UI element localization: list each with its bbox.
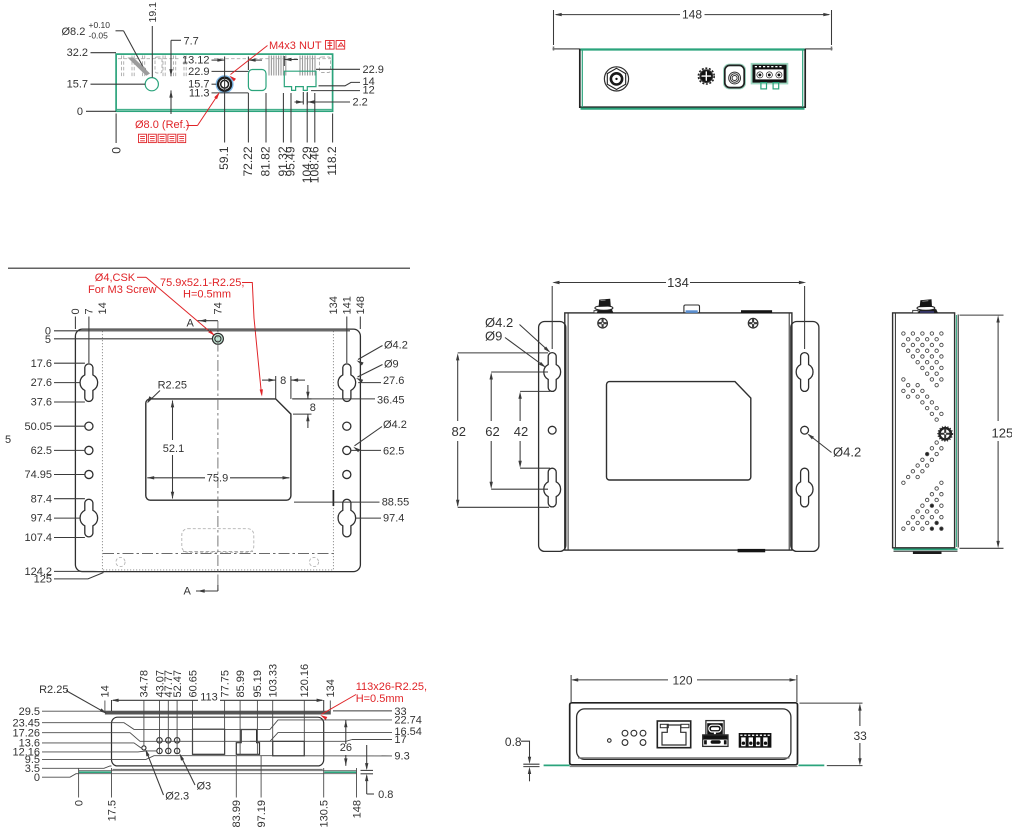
svg-text:33: 33 — [854, 729, 868, 743]
left flange slots and holes — [80, 364, 98, 402]
bottom tab — [913, 552, 942, 554]
M4 nut center — [222, 82, 227, 87]
svg-text:15.7: 15.7 — [67, 78, 88, 90]
svg-text:83.99: 83.99 — [231, 800, 243, 828]
svg-text:113x26-R2.25,: 113x26-R2.25, — [356, 681, 427, 693]
svg-text:9.3: 9.3 — [394, 751, 409, 763]
upper extension lines — [143, 701, 145, 746]
svg-text:130.5: 130.5 — [319, 800, 331, 828]
svg-text:13.12: 13.12 — [182, 55, 210, 67]
antenna hole — [145, 78, 158, 91]
svg-text:81.82: 81.82 — [259, 146, 273, 176]
svg-text:Ø4.2: Ø4.2 — [384, 340, 408, 352]
view 4: top view with mounting flanges — [452, 275, 862, 553]
fold lines (dotted) — [101, 331, 103, 570]
svg-text:17.5: 17.5 — [106, 800, 118, 821]
front panel inner outline — [577, 709, 791, 760]
flange strip with green wings — [544, 764, 570, 766]
svg-text:A: A — [184, 586, 192, 598]
svg-text:R2.25: R2.25 — [158, 379, 187, 391]
flange slots left — [544, 353, 561, 392]
green bottom edge — [581, 108, 805, 110]
svg-text:+0.10: +0.10 — [89, 20, 111, 30]
svg-text:0: 0 — [77, 106, 83, 118]
svg-text:5: 5 — [5, 434, 11, 446]
reset hole — [608, 739, 612, 743]
svg-text:0.8: 0.8 — [378, 789, 393, 801]
DC jack bump with blue base — [684, 305, 700, 313]
svg-text:75.9: 75.9 — [207, 472, 228, 484]
svg-text:19.1: 19.1 — [147, 2, 159, 23]
svg-text:125: 125 — [34, 574, 52, 586]
svg-text:107.4: 107.4 — [24, 532, 52, 544]
svg-text:62: 62 — [485, 424, 499, 439]
lower extension lines — [78, 768, 80, 798]
gray wedge shadow — [128, 58, 151, 76]
USB cutout stepped — [236, 730, 259, 755]
svg-text:5: 5 — [45, 334, 51, 346]
LED holes dia3 — [157, 738, 163, 744]
M4 nut blue halo — [217, 76, 233, 92]
section line A-A (dash-dot) — [217, 321, 219, 591]
svg-text:Ø2.3: Ø2.3 — [165, 791, 189, 803]
svg-text:29.5: 29.5 — [19, 706, 40, 718]
svg-text:0: 0 — [70, 308, 82, 314]
grounding screw — [698, 68, 714, 84]
svg-text:141: 141 — [342, 296, 354, 314]
right mounting flange — [791, 322, 819, 552]
svg-text:97.4: 97.4 — [31, 513, 52, 525]
svg-text:36.45: 36.45 — [377, 394, 405, 406]
svg-text:97.4: 97.4 — [383, 513, 404, 525]
svg-text:0.8: 0.8 — [505, 735, 522, 749]
central emboss cutout 75.9x52.1 — [146, 399, 291, 500]
svg-text:8: 8 — [280, 375, 286, 387]
svg-text:118.2: 118.2 — [325, 146, 339, 175]
svg-text:85.99: 85.99 — [235, 670, 247, 698]
M4 nut inner ring — [221, 80, 229, 88]
svg-text:148: 148 — [355, 296, 367, 314]
svg-text:7: 7 — [84, 308, 96, 314]
svg-text:82: 82 — [452, 424, 466, 439]
view 6: front panel dimension view — [12, 664, 427, 828]
view 5: side view with vent holes — [893, 299, 1012, 554]
enclosure bottom outline — [116, 54, 333, 111]
svg-text:134: 134 — [328, 296, 340, 314]
svg-text:37.6: 37.6 — [31, 397, 52, 409]
svg-text:Ø8.0 (Ref.): Ø8.0 (Ref.) — [135, 119, 189, 131]
svg-text:17.6: 17.6 — [31, 358, 52, 370]
red leader line to nut (from bottom) — [187, 125, 198, 127]
svg-text:H=0.5mm: H=0.5mm — [183, 288, 231, 300]
mounting flange edge-on — [553, 48, 580, 50]
svg-text:11.3: 11.3 — [189, 88, 210, 100]
svg-text:Ø9: Ø9 — [384, 358, 399, 370]
green flange wings — [79, 771, 111, 773]
hidden clips — [116, 557, 125, 566]
panel bottom second edge — [113, 769, 323, 771]
green left/right inner edges — [581, 50, 583, 107]
USB port — [706, 721, 724, 735]
svg-text:42: 42 — [514, 424, 528, 439]
bottom green edge — [894, 548, 958, 550]
SMA connector top — [913, 310, 919, 313]
svg-text:12: 12 — [363, 85, 375, 97]
svg-text:75.9x52.1-R2.25,: 75.9x52.1-R2.25, — [160, 277, 244, 289]
LED circles — [622, 730, 628, 736]
svg-text:27.6: 27.6 — [31, 377, 52, 389]
svg-text:59.1: 59.1 — [217, 146, 231, 170]
svg-text:Ø3: Ø3 — [197, 781, 212, 793]
terminal block 3-pin — [752, 64, 787, 83]
SMA antenna connector — [604, 67, 628, 91]
terminal block edge strip — [741, 310, 772, 313]
svg-text:-0.05: -0.05 — [89, 31, 109, 41]
svg-text:120.16: 120.16 — [299, 664, 311, 698]
svg-text:2.2: 2.2 — [353, 97, 368, 109]
svg-text:103.33: 103.33 — [268, 664, 280, 698]
svg-text:134: 134 — [667, 275, 689, 290]
svg-text:52.47: 52.47 — [172, 670, 184, 698]
svg-text:52.1: 52.1 — [163, 443, 184, 455]
view 2: rear view with connectors — [553, 8, 833, 109]
dark fold segment — [332, 490, 334, 506]
view 3: mounting plate rear view — [5, 268, 410, 597]
svg-text:74.95: 74.95 — [24, 469, 52, 481]
svg-text:125: 125 — [992, 425, 1012, 440]
svg-text:148: 148 — [351, 800, 363, 818]
front box outline — [570, 703, 798, 765]
svg-text:14: 14 — [97, 302, 109, 314]
svg-text:Ø4.2: Ø4.2 — [833, 445, 861, 460]
svg-text:8: 8 — [310, 402, 316, 414]
flange strip — [79, 770, 357, 772]
view 1: bottom view of enclosure (green outline) — [62, 2, 384, 183]
vent holes pattern — [902, 332, 943, 531]
CSK hole — [212, 333, 223, 344]
terminal cutout — [273, 741, 305, 756]
leader from dia8.2 to hole — [116, 30, 124, 32]
right seam with green line — [957, 315, 959, 548]
side body outline — [893, 313, 955, 548]
svg-text:62.5: 62.5 — [383, 445, 404, 457]
svg-text:97.19: 97.19 — [256, 800, 268, 828]
inner bottom edge line — [117, 108, 332, 110]
plate outline — [75, 329, 360, 571]
svg-text:148: 148 — [682, 8, 702, 22]
svg-text:95.49: 95.49 — [284, 146, 298, 176]
svg-text:22.9: 22.9 — [188, 66, 209, 78]
svg-text:7.7: 7.7 — [184, 35, 199, 47]
svg-text:32.2: 32.2 — [67, 47, 88, 59]
flange slots right — [796, 353, 813, 392]
svg-text:88.55: 88.55 — [382, 497, 410, 509]
terminal block cutout with notches — [284, 71, 316, 90]
svg-text:Ø4.2: Ø4.2 — [383, 419, 407, 431]
SMA connector on top edge — [594, 311, 599, 313]
svg-text:113: 113 — [200, 692, 218, 704]
panel bottom inner thick line — [578, 757, 790, 759]
svg-text:72.22: 72.22 — [241, 146, 255, 176]
svg-text:Ø4,CSK: Ø4,CSK — [95, 272, 136, 284]
svg-text:Ø8.2: Ø8.2 — [62, 26, 86, 38]
body seam lines — [567, 314, 569, 550]
cover screws — [598, 318, 608, 328]
svg-text:134: 134 — [325, 679, 337, 697]
LED hole dia2.3 — [142, 746, 146, 750]
svg-text:0: 0 — [110, 147, 124, 154]
svg-text:22.74: 22.74 — [394, 715, 422, 727]
emboss top bar (thick) — [105, 711, 330, 715]
svg-text:17: 17 — [394, 734, 406, 746]
svg-text:22.9: 22.9 — [363, 64, 384, 76]
svg-text:0: 0 — [73, 800, 85, 806]
M4 nut outer ring — [218, 78, 231, 91]
rear body outline — [580, 49, 805, 108]
svg-text:M4x3 NUT: M4x3 NUT — [269, 40, 322, 52]
svg-text:50.05: 50.05 — [24, 421, 52, 433]
svg-text:H=0.5mm: H=0.5mm — [356, 693, 404, 705]
RJ45 cutout — [193, 729, 225, 754]
terminal left edge tick — [284, 58, 291, 61]
central cutout with chamfer — [607, 382, 751, 480]
svg-text:60.65: 60.65 — [187, 670, 199, 698]
view 7: front view of device — [505, 673, 867, 781]
DC jack cutout — [248, 70, 266, 91]
svg-text:87.4: 87.4 — [31, 493, 52, 505]
body outline — [565, 313, 792, 550]
page separator line — [8, 267, 410, 269]
svg-text:A: A — [187, 318, 195, 330]
left mounting flange — [539, 322, 566, 552]
svg-text:74: 74 — [213, 302, 225, 314]
bottom extension lines — [224, 95, 226, 143]
DC jack — [724, 65, 744, 88]
right flange slots and holes — [338, 364, 356, 402]
bottom interior dash-dot — [103, 553, 334, 555]
svg-text:For M3 Screw: For M3 Screw — [88, 284, 157, 296]
panel outline — [112, 717, 324, 766]
svg-text:14: 14 — [100, 685, 112, 697]
top extension lines — [88, 317, 90, 364]
svg-text:0: 0 — [34, 772, 40, 784]
RJ45 port — [657, 721, 690, 748]
hidden internal edges (gray dashed) — [118, 58, 180, 60]
svg-text:95.19: 95.19 — [252, 670, 264, 698]
svg-text:108.46: 108.46 — [307, 146, 321, 183]
svg-text:Ø9: Ø9 — [485, 329, 502, 344]
hidden bottom tab (dashed) — [182, 529, 254, 553]
green top edge — [581, 48, 805, 50]
svg-text:R2.25: R2.25 — [39, 684, 68, 696]
terminal mounting tabs — [761, 83, 767, 89]
svg-text:27.6: 27.6 — [383, 375, 404, 387]
side screw — [938, 427, 953, 442]
hidden connector combs (gray) — [268, 56, 270, 76]
svg-text:77.75: 77.75 — [219, 670, 231, 698]
svg-text:62.5: 62.5 — [31, 445, 52, 457]
svg-text:34.78: 34.78 — [139, 670, 151, 698]
black tab at bottom edge — [738, 549, 766, 552]
terminal block 4-pin — [739, 733, 772, 748]
red leader to nut (from top) — [231, 46, 268, 75]
svg-text:120: 120 — [672, 673, 692, 687]
